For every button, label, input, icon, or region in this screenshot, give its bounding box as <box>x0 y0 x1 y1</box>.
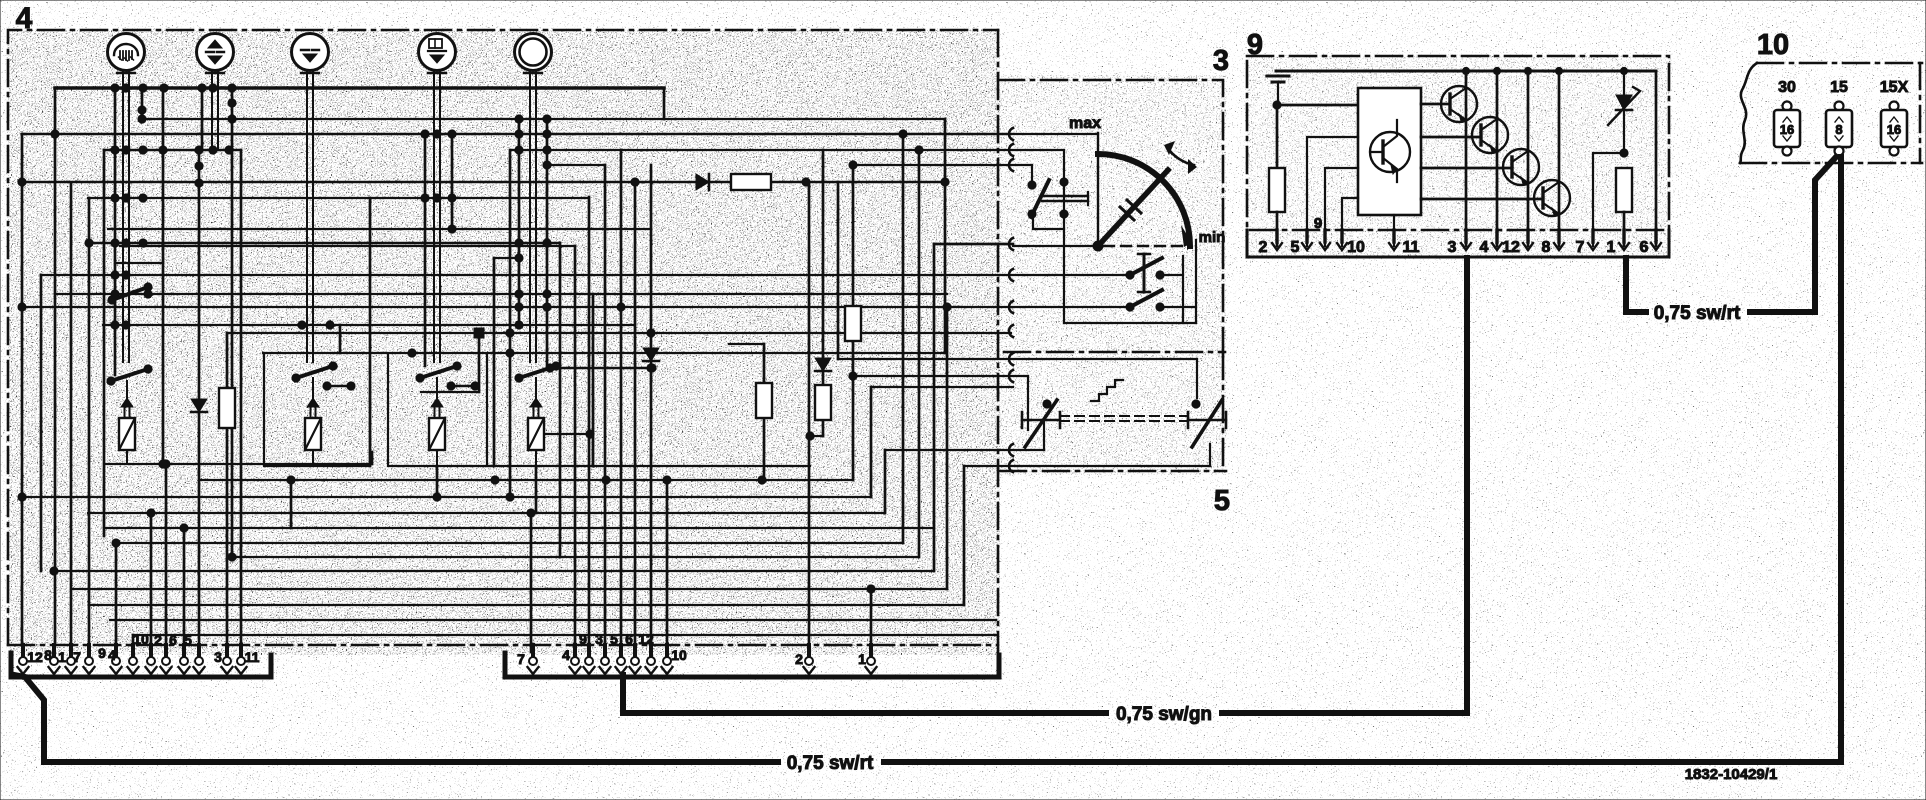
junction node (621,307) <box>617 303 625 311</box>
junction node (22,182) <box>18 178 26 186</box>
wire vertical x=227 y=333..645 <box>226 333 229 645</box>
svg-text:16: 16 <box>1887 122 1901 137</box>
svg-text:30: 30 <box>1778 79 1796 96</box>
wire horizontal y=434 x=544..589 <box>544 433 589 435</box>
svg-text:5: 5 <box>184 632 192 648</box>
needle <box>1093 170 1168 251</box>
gauge 3 <box>292 34 329 89</box>
junction node (126,198) <box>122 194 130 202</box>
direction arrow <box>1164 141 1197 174</box>
right bar pin labels <box>517 631 866 667</box>
wire vertical x=871 y=589..645 <box>870 589 873 645</box>
wire horizontal y=275 x=41..1011 <box>41 274 1011 276</box>
wire vertical x=903 y=133..543 <box>902 133 905 543</box>
block3 switch B <box>1013 240 1196 323</box>
wire horizontal y=513 x=88..885 <box>88 512 885 514</box>
b9 resistor R6 <box>1269 168 1285 246</box>
svg-text:9: 9 <box>98 645 106 661</box>
svg-text:0,75 sw/rt: 0,75 sw/rt <box>787 753 874 774</box>
left bar pin labels <box>27 631 259 665</box>
junction node (291,480) <box>287 476 295 484</box>
svg-text:2: 2 <box>795 651 803 667</box>
junction node (547,119) <box>543 115 551 123</box>
svg-text:0,75 sw/rt: 0,75 sw/rt <box>1654 303 1741 324</box>
junction node (519,307) <box>515 303 523 311</box>
relay M4 <box>487 355 656 466</box>
junction node (143,150) <box>139 146 147 154</box>
wire vertical x=22 y=134..645 <box>21 134 24 645</box>
svg-text:1: 1 <box>58 649 66 665</box>
svg-text:4: 4 <box>16 2 33 35</box>
svg-text:3: 3 <box>1448 239 1457 256</box>
wire vertical x=853 y=165..480 <box>852 165 855 480</box>
wire vertical x=71 y=184..645 <box>70 184 73 645</box>
svg-text:5: 5 <box>610 631 618 647</box>
wire horizontal y=134 x=22..1011 <box>22 133 1011 135</box>
junction node (547,134) <box>543 130 551 138</box>
wire vertical x=232 y=88..557 <box>231 88 234 557</box>
wire vertical x=116 y=543..645 <box>115 543 118 645</box>
junction node (115,198) <box>111 194 119 202</box>
wire vertical x=340 y=325..353 <box>339 325 342 353</box>
wire vertical x=560 y=243..557 <box>559 243 562 557</box>
junction node (166,464) <box>162 460 170 468</box>
wire vertical x=241 y=150..645 <box>240 150 243 645</box>
b9 resistor R7 <box>1616 168 1632 246</box>
block 3 border (dash-dot) <box>998 80 1225 353</box>
wire horizontal y=165 x=547..605 <box>547 164 605 166</box>
junction node (126,88) <box>122 84 130 92</box>
junction node (947,307) <box>943 303 951 311</box>
junction node (547,307) <box>543 303 551 311</box>
wire vertical x=964 y=466..605 <box>963 466 966 605</box>
resistor R1 <box>219 388 235 428</box>
wire horizontal y=450 x=885..1011 <box>885 449 1011 451</box>
wire horizontal y=571 x=54..934 <box>54 570 934 572</box>
junction node (853,376) <box>849 372 857 380</box>
junction node (142,110) <box>138 106 146 114</box>
svg-text:12: 12 <box>638 631 654 647</box>
wire vertical x=510 y=150..497 <box>509 150 512 497</box>
wire horizontal y=387 x=871..1013 <box>871 386 1013 388</box>
junction node (163,464) <box>159 460 167 468</box>
wire vertical x=919 y=150..557 <box>918 150 921 557</box>
twin feed wire g5 x=533 <box>530 88 536 362</box>
junction node (164,88) <box>160 84 168 92</box>
junction node (199,150) <box>195 146 203 154</box>
junction node (54,571) <box>50 567 58 575</box>
svg-text:10: 10 <box>671 647 687 663</box>
wire vertical x=621 y=150..652 <box>620 150 623 652</box>
square junction <box>474 328 484 338</box>
block 4 border (dash-dot) <box>8 30 998 658</box>
left bar pins <box>18 645 247 674</box>
wire horizontal y=88 x=55..664 <box>55 86 664 90</box>
b9 IC transistor <box>1370 120 1410 182</box>
wire horizontal y=263 x=115..163 <box>115 262 163 264</box>
twin feed wire g4 x=437 <box>434 88 440 362</box>
junction node (115,275) <box>111 271 119 279</box>
svg-text:10: 10 <box>1757 29 1789 61</box>
twin feed wire g1 x=126 <box>123 88 129 362</box>
right connector bar <box>505 653 999 677</box>
wire vertical x=885 y=450..513 <box>884 450 887 513</box>
wire vertical x=593 y=294..466 <box>592 294 595 466</box>
wire horizontal y=466 x=964..1011 <box>964 465 1011 467</box>
junction node (635,182) <box>631 178 639 186</box>
wire vertical x=664 y=88..119 <box>663 88 666 119</box>
wire vertical x=531 y=513..652 <box>530 513 533 652</box>
b9 pins <box>1272 230 1661 250</box>
left connector bar <box>11 653 271 677</box>
resistor R4 <box>815 385 831 420</box>
block5 switch R <box>1188 400 1226 447</box>
junction node (143,243) <box>139 239 147 247</box>
resistor R3 <box>756 383 772 418</box>
b9 ground <box>1267 76 1289 109</box>
block5 terminals <box>1009 353 1013 472</box>
junction node (425,198) <box>421 194 429 202</box>
junction node (115,88) <box>111 84 119 92</box>
svg-text:3: 3 <box>1213 45 1229 77</box>
wire vertical x=479 y=333..392 <box>478 333 481 392</box>
b9 IC box <box>1358 88 1421 215</box>
junction node (202,88) <box>198 84 206 92</box>
wire vertical x=575 y=246..652 <box>574 246 577 652</box>
wire horizontal y=294 x=55..947 <box>55 293 947 295</box>
junction node (115,243) <box>111 239 119 247</box>
diode D1 <box>191 399 207 412</box>
junction node (590,434) <box>586 430 594 438</box>
wire vertical x=166 y=464..645 <box>165 464 168 645</box>
svg-text:6: 6 <box>1640 239 1649 256</box>
svg-text:10: 10 <box>133 631 149 647</box>
svg-text:6: 6 <box>625 631 633 647</box>
junction node (762,480) <box>758 476 766 484</box>
junction node (510,497) <box>506 493 514 501</box>
svg-text:max: max <box>1069 115 1101 132</box>
diode D4 <box>815 358 831 371</box>
wire horizontal y=150 x=104..241 <box>104 149 241 151</box>
junction node (199,166) <box>195 162 203 170</box>
gauge clock <box>515 34 552 89</box>
junction node (547,165) <box>543 161 551 169</box>
junction node (148,294) <box>144 290 152 298</box>
junction node (547,243) <box>543 239 551 247</box>
wire horizontal y=392 x=421..479 <box>421 391 479 393</box>
wire horizontal y=344 x=729..764 <box>729 343 764 345</box>
block5 wiring <box>1013 359 1210 466</box>
wire horizontal y=353 x=263..945 <box>263 352 945 354</box>
wire vertical x=934 y=244..571 <box>933 244 936 571</box>
b9 IC input wires <box>1307 137 1394 246</box>
svg-text:9: 9 <box>579 631 587 647</box>
svg-text:5: 5 <box>1214 485 1230 517</box>
svg-text:12: 12 <box>1502 239 1520 256</box>
svg-text:7: 7 <box>1576 239 1585 256</box>
junction node (199,183) <box>195 179 203 187</box>
wire horizontal y=635 x=133..996 <box>133 634 996 636</box>
switch S1 <box>108 283 152 304</box>
terminal 15X <box>1880 79 1909 156</box>
right bar pins <box>528 645 877 674</box>
wire vertical x=115 y=88..375 <box>114 88 117 375</box>
block3 terminals <box>1009 128 1013 337</box>
terminal 15 <box>1826 79 1852 156</box>
wire vertical x=947 y=307..589 <box>946 307 949 589</box>
svg-text:15X: 15X <box>1880 79 1909 96</box>
junction node (519,325) <box>515 321 523 329</box>
junction node (22,497) <box>18 493 26 501</box>
junction node (232,119) <box>228 115 236 123</box>
junction node (519,258) <box>515 254 523 262</box>
junction node (547,150) <box>543 146 551 154</box>
svg-text:6: 6 <box>169 632 177 648</box>
wire horizontal y=466 x=593..810 <box>593 465 810 467</box>
thick wire sw/gn <box>623 258 1467 713</box>
svg-text:4: 4 <box>562 647 570 663</box>
twin feed wire g2 x=215 <box>212 88 218 150</box>
junction node (55,134) <box>51 130 59 138</box>
svg-text:min: min <box>1199 229 1226 246</box>
rest position dashed <box>1104 245 1188 247</box>
wire vertical x=838 y=182..359 <box>837 182 840 359</box>
svg-text:2: 2 <box>1259 239 1268 256</box>
svg-text:9: 9 <box>1247 29 1263 61</box>
wire horizontal y=557 x=232..919 <box>232 556 919 558</box>
wire horizontal y=528 x=104..934 <box>104 527 934 529</box>
wire vertical x=651 y=165..652 <box>650 165 653 652</box>
junction node (229,150) <box>225 146 233 154</box>
wire horizontal y=229 x=108..651 <box>108 228 651 230</box>
wire vertical x=104 y=150..536 <box>103 150 106 536</box>
twin feed wire g3 x=310 <box>307 88 313 362</box>
junction node (519,119) <box>515 115 523 123</box>
junction node (126,243) <box>122 239 130 247</box>
junction node (651,368) <box>647 364 655 372</box>
junction node (143,198) <box>139 194 147 202</box>
svg-text:8: 8 <box>1835 122 1842 137</box>
junction node (213,150) <box>209 146 217 154</box>
junction node (115,325) <box>111 321 119 329</box>
block 10 border <box>1740 63 1922 163</box>
svg-text:15: 15 <box>1830 79 1848 96</box>
block3 switch A <box>1013 134 1098 323</box>
junction node (853,165) <box>849 161 857 169</box>
wire vertical x=809 y=182..645 <box>808 182 811 645</box>
svg-text:16: 16 <box>1780 122 1794 137</box>
junction node (606,480) <box>602 476 610 484</box>
thick wire sw/rt bottom <box>14 157 1841 762</box>
wire vertical x=425 y=134..366 <box>424 134 427 366</box>
svg-text:4: 4 <box>108 647 116 663</box>
junction node (810,436) <box>806 432 814 440</box>
wire vertical x=142 y=88..119 <box>141 88 144 119</box>
junction node (903,134) <box>899 130 907 138</box>
wire vertical x=89 y=198..645 <box>88 198 91 645</box>
wire vertical x=452 y=134..229 <box>451 134 454 229</box>
junction node (510,333) <box>506 329 514 337</box>
wire horizontal y=246 x=120..574 <box>120 245 574 247</box>
block 9 border <box>1247 56 1669 257</box>
wire horizontal y=243 x=89..560 <box>89 242 560 244</box>
svg-text:9: 9 <box>1314 215 1322 232</box>
wire vertical x=202 y=88..150 <box>201 88 204 150</box>
junction node (452,134) <box>448 130 456 138</box>
wire vertical x=547 y=119..368 <box>546 119 549 368</box>
resistor R2 (series) <box>731 174 771 190</box>
wire vertical x=55 y=88..645 <box>54 88 57 645</box>
b9 zener <box>1608 71 1640 157</box>
junction node (531,513) <box>527 509 535 517</box>
svg-text:1: 1 <box>1607 239 1616 256</box>
junction node (519,150) <box>515 146 523 154</box>
relay M2 <box>264 355 370 466</box>
wire vertical x=871 y=387..497 <box>870 387 873 497</box>
svg-text:5: 5 <box>1291 239 1300 256</box>
wire vertical x=163 y=88..464 <box>162 88 165 464</box>
wire horizontal y=119 x=142..945 <box>142 118 945 120</box>
junction node (495,480) <box>491 476 499 484</box>
gauge fuel <box>108 34 145 89</box>
wire to arc 244 <box>934 243 1013 246</box>
wire vertical x=291 y=480..528 <box>290 480 293 528</box>
svg-text:10: 10 <box>1347 239 1365 256</box>
b9 wire gnd-ic <box>1277 105 1358 168</box>
junction node (302,325) <box>298 321 306 329</box>
wire vertical x=667 y=480..652 <box>666 480 669 652</box>
wire vertical x=437 y=466..497 <box>436 466 439 497</box>
junction node (163,150) <box>159 146 167 154</box>
wire vertical x=605 y=165..652 <box>604 165 607 652</box>
junction node (126,150) <box>122 146 130 154</box>
wire horizontal y=605 x=89..964 <box>89 604 964 606</box>
wire horizontal y=589 x=71..947 <box>71 588 947 590</box>
wire horizontal y=359 x=838..1011 <box>838 358 1011 360</box>
wire horizontal y=258 x=494..519 <box>494 257 519 259</box>
junction node (452,198) <box>448 194 456 202</box>
wire vertical x=764 y=344..480 <box>763 344 766 480</box>
wire horizontal y=333 x=227..1011 <box>227 332 1011 334</box>
gauge temp <box>197 34 234 89</box>
wire vertical x=370 y=198..466 <box>369 198 372 466</box>
junction node (115,150) <box>111 146 119 154</box>
wire vertical x=945 y=119..353 <box>944 119 947 353</box>
junction node (437,198) <box>433 194 441 202</box>
b9 pin labels <box>1259 215 1649 256</box>
relay M3 <box>388 355 494 466</box>
junction node (232,557) <box>228 553 236 561</box>
wire vertical x=494 y=258..466 <box>493 258 496 466</box>
junction node (667,480) <box>663 476 671 484</box>
wire vertical x=184 y=528..645 <box>183 528 186 645</box>
wire horizontal y=620 x=110..996 <box>110 619 996 621</box>
b9 transistor T4 <box>1421 71 1570 246</box>
wire vertical x=151 y=513..645 <box>150 513 153 645</box>
wire vertical x=41 y=275..571 <box>40 275 43 571</box>
svg-text:11: 11 <box>245 649 260 665</box>
b9 transistor T3 <box>1421 71 1539 246</box>
svg-text:7: 7 <box>73 649 81 665</box>
mechanical link (dashed) <box>1060 416 1188 421</box>
wire horizontal y=182 x=22..945 <box>22 181 945 183</box>
junction node (232,103) <box>228 99 236 107</box>
wire vertical x=199 y=150..645 <box>198 150 201 645</box>
wire vertical x=372 y=452..464 <box>371 452 374 464</box>
junction node (519,294) <box>515 290 523 298</box>
svg-text:11: 11 <box>1403 239 1420 256</box>
svg-text:0,75 sw/gn: 0,75 sw/gn <box>1116 704 1212 725</box>
wire horizontal y=480 x=199..853 <box>199 479 853 481</box>
svg-text:7: 7 <box>517 651 525 667</box>
wire horizontal y=464 x=104..372 <box>104 463 372 465</box>
junction node (116,543) <box>112 539 120 547</box>
gauge arc (max-min) <box>1098 133 1192 247</box>
wire horizontal y=543 x=116..903 <box>116 542 903 544</box>
junction node (547,294) <box>543 290 551 298</box>
junction node (412,353) <box>408 349 416 357</box>
wire vertical x=635 y=182..652 <box>634 182 637 652</box>
diode D2 (series) <box>696 174 709 190</box>
wire vertical x=133 y=635..645 <box>132 635 135 645</box>
junction node (126,325) <box>122 321 130 329</box>
svg-text:8: 8 <box>44 647 52 663</box>
wire horizontal y=325 x=103..635 <box>103 324 635 326</box>
junction node (142,119) <box>138 115 146 123</box>
svg-text:2: 2 <box>154 632 162 648</box>
terminal 30 <box>1774 79 1800 156</box>
b9 wire to pin7 <box>1593 153 1624 246</box>
junction node (452,229) <box>448 225 456 233</box>
wire horizontal y=307 x=22..1011 <box>22 306 1011 308</box>
block 5 border (dash-dot) <box>1000 353 1226 472</box>
junction node (22,307) <box>18 303 26 311</box>
junction node (213,88) <box>209 84 217 92</box>
wire horizontal y=198 x=88..589 <box>88 197 589 199</box>
junction node (871,589) <box>867 585 875 593</box>
wire horizontal y=150 x=512..1011 <box>512 149 1011 151</box>
gauge charge <box>419 34 456 89</box>
thick wire sw/rt top <box>1626 157 1836 312</box>
junction node (510,353) <box>506 349 514 357</box>
svg-text:12: 12 <box>27 649 43 665</box>
junction node (232,88) <box>228 84 236 92</box>
b9 right wire pin6 <box>1655 71 1658 246</box>
wire horizontal y=165 x=853..1011 <box>853 164 1011 166</box>
junction node (519,134) <box>515 130 523 138</box>
wire vertical x=536 y=466..513 <box>535 466 538 513</box>
step symbol <box>1091 380 1123 401</box>
junction node (126,275) <box>122 271 130 279</box>
b9 transistor T2 <box>1421 71 1508 246</box>
b9 top bus <box>1276 67 1656 74</box>
junction node (425,134) <box>421 130 429 138</box>
block5 switch L <box>1022 400 1060 447</box>
wire vertical x=823 y=150..436 <box>822 150 825 436</box>
junction node (651,333) <box>647 329 655 337</box>
wire horizontal y=436 x=810..823 <box>810 435 823 437</box>
wire horizontal y=376 x=853..1011 <box>853 375 1011 377</box>
junction node (945,182) <box>941 178 949 186</box>
resistor R5 <box>845 306 861 341</box>
junction node (437,134) <box>433 130 441 138</box>
wire vertical x=519 y=119..325 <box>518 119 521 325</box>
relay M1 <box>107 365 152 464</box>
svg-text:3: 3 <box>595 631 603 647</box>
wire horizontal y=497 x=22..871 <box>22 496 871 498</box>
junction node (330,325) <box>326 321 334 329</box>
svg-text:1: 1 <box>858 651 866 667</box>
